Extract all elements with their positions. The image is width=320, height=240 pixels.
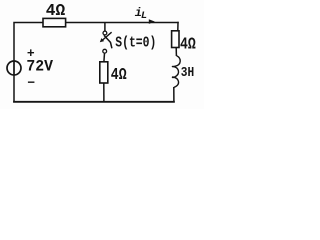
svg-text:72V: 72V	[26, 57, 53, 75]
inductor L1 3H	[172, 56, 194, 88]
svg-text:4Ω: 4Ω	[111, 65, 127, 84]
svg-text:4Ω: 4Ω	[180, 35, 196, 54]
wire below R3	[175, 48, 177, 57]
switch blade	[104, 35, 112, 48]
current label iL with arrow	[135, 6, 155, 24]
voltage source V1 72V	[7, 46, 53, 91]
wire top-middle segment	[66, 22, 178, 24]
wire left and top-left segment	[14, 23, 43, 102]
wire below R2	[103, 83, 105, 102]
wire switch top stub	[104, 23, 106, 32]
switch top contact circle	[103, 31, 107, 35]
wire right vertical bottom	[173, 88, 175, 102]
svg-text:S(t=0): S(t=0)	[115, 36, 156, 52]
switch bottom contact circle	[103, 49, 107, 53]
resistor R3 4ohm right	[172, 31, 196, 56]
svg-text:−: −	[27, 75, 35, 90]
switch S(t=0)	[100, 23, 157, 62]
svg-text:4Ω: 4Ω	[46, 1, 65, 20]
wire right vertical top	[177, 23, 179, 31]
svg-text:3H: 3H	[181, 65, 194, 81]
svg-text:L: L	[141, 10, 147, 22]
resistor R1 4ohm top	[43, 1, 66, 27]
wire bottom segment	[14, 101, 174, 103]
switch motion arrow	[103, 32, 112, 40]
resistor R2 4ohm middle	[100, 62, 127, 102]
wire switch bottom stub	[103, 53, 106, 62]
